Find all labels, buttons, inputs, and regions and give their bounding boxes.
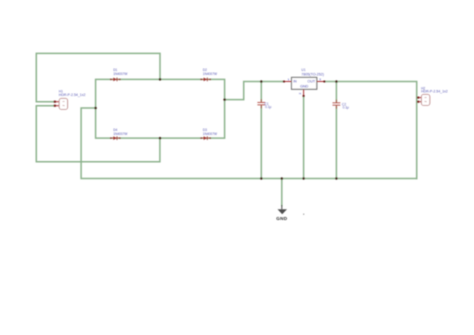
svg-text:1N4007W: 1N4007W: [203, 72, 217, 76]
svg-text:0.1μ: 0.1μ: [343, 106, 349, 110]
svg-text:1N4007W: 1N4007W: [203, 132, 217, 136]
svg-text:IN: IN: [293, 80, 297, 84]
svg-text:7805(TO-252): 7805(TO-252): [301, 73, 324, 77]
svg-text:1: 1: [61, 100, 65, 102]
svg-text:HDR-P-2.54_1x2: HDR-P-2.54_1x2: [421, 90, 448, 94]
svg-text:1N4007W: 1N4007W: [113, 72, 127, 76]
svg-text:2: 2: [61, 104, 65, 106]
svg-text:GND: GND: [300, 85, 309, 89]
svg-text:HDR-P-2.54_1x2: HDR-P-2.54_1x2: [59, 93, 86, 97]
svg-text:U1: U1: [301, 68, 305, 72]
svg-text:GND: GND: [276, 216, 287, 221]
svg-text:1N4007W: 1N4007W: [113, 132, 127, 136]
svg-text:0.1μ: 0.1μ: [265, 105, 271, 109]
svg-text:OUT: OUT: [307, 80, 316, 84]
